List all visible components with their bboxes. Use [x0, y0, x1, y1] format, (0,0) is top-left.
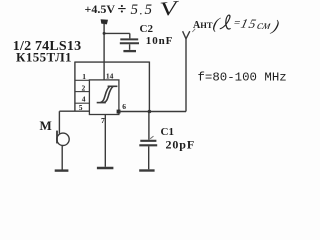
wire antenna riser — [185, 39, 187, 112]
svg-text:14: 14 — [106, 71, 114, 80]
svg-text:V: V — [159, 0, 182, 21]
svg-text:К155ТЛ1: К155ТЛ1 — [16, 49, 72, 64]
svg-text:5: 5 — [79, 103, 83, 112]
node output junction — [148, 110, 152, 114]
wire input pin row 1 — [75, 79, 90, 81]
svg-text:6: 6 — [122, 102, 126, 111]
svg-text:10nF: 10nF — [146, 35, 173, 47]
antenna symbol — [183, 31, 190, 39]
wire C1 top lead — [148, 112, 150, 140]
wire feedback right vertical — [148, 62, 150, 112]
wire input pin row 4 — [75, 102, 90, 104]
capacitor C1 — [139, 141, 157, 146]
C1 handwritten tick — [150, 136, 153, 139]
svg-text:C2: C2 — [140, 23, 154, 35]
wire C2 bottom lead — [129, 44, 131, 50]
stray pen mark — [192, 29, 195, 32]
label handwritten (l=15cm) — [211, 15, 282, 35]
wire pin 7 ground lead — [104, 115, 106, 167]
svg-text:1: 1 — [82, 72, 86, 81]
ground pin 7 — [97, 167, 114, 169]
wire C1 bottom lead — [148, 146, 150, 169]
svg-text:M: M — [40, 118, 52, 133]
ground microphone — [55, 169, 69, 171]
wire output pin 6 — [119, 111, 186, 113]
svg-text:7: 7 — [101, 116, 105, 125]
svg-text:f=80-100 MHz: f=80-100 MHz — [198, 71, 287, 85]
wire supply vertical to pin 14 — [103, 24, 105, 80]
svg-text:÷: ÷ — [118, 1, 127, 18]
label handwritten 5.5V — [131, 0, 182, 21]
ground C1 — [139, 169, 154, 171]
svg-text:см: см — [256, 18, 273, 32]
svg-text:5: 5 — [145, 2, 153, 18]
svg-text:(: ( — [211, 16, 222, 33]
svg-text:5: 5 — [131, 2, 139, 18]
svg-text:АНТ: АНТ — [193, 20, 213, 31]
capacitor C2 — [120, 39, 139, 43]
wire microphone bottom lead — [61, 145, 63, 169]
svg-text:20pF: 20pF — [166, 138, 196, 152]
junction dot supply/C2 — [103, 32, 106, 35]
node +V supply terminal — [101, 19, 108, 24]
wire microphone drop — [58, 111, 60, 134]
svg-text:+4.5V: +4.5V — [85, 2, 116, 16]
wire feedback top horizontal — [75, 61, 149, 63]
wire C2 branch horizontal — [104, 32, 130, 34]
ground C2 — [123, 50, 136, 52]
wire input pin row 2 — [75, 91, 90, 93]
microphone membrane — [56, 131, 58, 144]
wire input bus vertical — [74, 62, 76, 112]
svg-text:2: 2 — [82, 83, 86, 92]
svg-text:.: . — [140, 3, 143, 18]
pin 6 pad — [117, 110, 121, 114]
wire pin 5 / microphone line — [59, 110, 89, 112]
wire C2 top lead — [129, 33, 131, 38]
svg-text:C1: C1 — [161, 126, 174, 138]
op-amp U1 74LS13 gate body — [89, 80, 119, 115]
schmitt trigger hysteresis symbol — [97, 86, 118, 102]
microphone M body — [57, 133, 69, 145]
